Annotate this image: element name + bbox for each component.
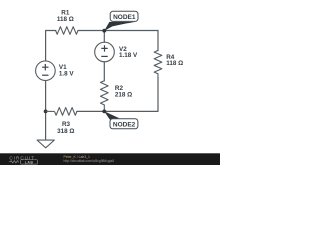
label R2 value 218 ohm [115,85,132,98]
footer title text [64,155,91,159]
footer bar [0,153,220,165]
label R3 value 318 ohm [57,121,74,135]
node NODE1 label box [110,11,138,21]
footer url text [64,159,115,163]
svg-text:NODE1: NODE1 [113,14,136,21]
V1 minus sign [42,74,48,76]
resistor R1 [56,27,78,35]
label V1 value 1.8 V [59,64,75,77]
voltage source V1 [36,61,56,81]
resistor R2 [100,81,108,112]
voltage source V2 [95,42,115,62]
footer logo CIRCUIT text [9,156,35,161]
ground [37,140,54,148]
label V2 value 1.18 V [119,46,138,59]
svg-text:http://circuitlab.com/c/8cg986: http://circuitlab.com/c/8cg986cpja8 [64,159,115,163]
label R1 value 118 ohm [57,10,74,23]
svg-text:118 Ω: 118 Ω [166,60,183,67]
node junction left (R3 tap) [44,110,48,114]
node NODE2 pointer wedge [104,111,119,119]
resistor R3 [46,108,77,116]
svg-text:118 Ω: 118 Ω [57,16,74,23]
node NODE1 junction dot [102,29,106,33]
label R4 value 118 ohm [166,54,183,67]
svg-text:LAB: LAB [25,160,34,164]
wire center branch top [103,31,105,43]
svg-text:318 Ω: 318 Ω [57,128,74,135]
svg-text:1.8 V: 1.8 V [59,70,75,77]
svg-text:Peter_K / Lab3_1: Peter_K / Lab3_1 [64,155,91,159]
resistor R4 [154,50,162,77]
node NODE1 pointer wedge [104,22,135,31]
node NODE2 junction dot [102,110,106,114]
svg-text:218 Ω: 218 Ω [115,91,132,98]
wire left vertical below V1 [45,81,47,140]
wire right vertical down to R4 [157,31,159,51]
V2 plus sign [101,45,107,51]
V1 plus sign [42,64,48,70]
wire V2 bottom to R2 [103,62,105,81]
wire R3 to center junction [77,110,105,112]
wire top horizontal to right [78,30,158,32]
footer logo zigzag [9,161,19,163]
wire top-left horizontal segment [46,31,56,61]
svg-text:NODE2: NODE2 [113,121,136,128]
footer logo LAB badge [21,160,38,164]
wire right vertical below R4 to bottom corner [104,77,158,111]
node NODE2 label box [110,119,138,129]
footer logo LAB text [25,160,34,164]
svg-text:1.18 V: 1.18 V [119,52,138,59]
V2 minus sign [101,55,107,57]
